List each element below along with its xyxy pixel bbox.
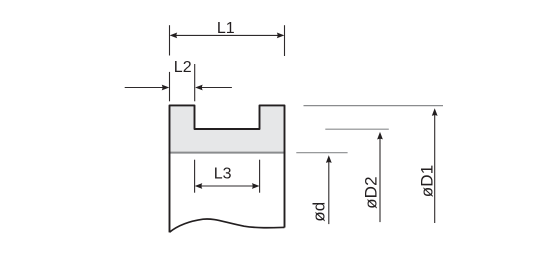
- svg-text:L3: L3: [214, 166, 232, 183]
- svg-text:ød: ød: [310, 202, 329, 222]
- svg-text:L2: L2: [174, 59, 192, 76]
- svg-text:øD1: øD1: [417, 165, 436, 198]
- svg-text:øD2: øD2: [362, 176, 381, 209]
- svg-text:L1: L1: [217, 20, 235, 37]
